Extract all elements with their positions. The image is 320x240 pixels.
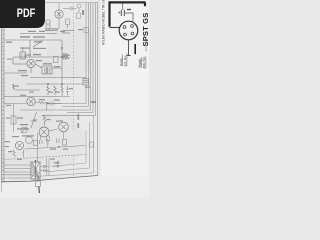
chassis ground dashed line (4, 155, 86, 160)
tube V6 (15, 141, 23, 149)
underline 1 (141, 57, 143, 68)
socket label underline 2 (126, 54, 128, 67)
paper background (0, 0, 149, 198)
underline 2 (145, 57, 147, 69)
node dot 4 (61, 83, 62, 84)
capacitor C3 (66, 86, 69, 96)
wire grid row (63, 8, 70, 10)
capacitor C6 (121, 10, 124, 16)
wire branch (29, 40, 31, 57)
speaker connector stripes (83, 81, 89, 83)
frame bottom nested line 2 (40, 116, 94, 176)
capacitor C1 box (46, 20, 50, 29)
tiny text smudges (5, 10, 96, 164)
thick divider line (134, 44, 136, 54)
tube V4 (39, 127, 49, 137)
node dot 3 (47, 83, 48, 84)
wire V1 plate (58, 3, 60, 10)
wire stub row a (62, 30, 74, 32)
wire grid bus row (20, 33, 57, 35)
wire T3 lead (22, 47, 24, 52)
resistor R5 (54, 86, 56, 95)
volume control VR1 (21, 127, 27, 133)
wire x13 drop (13, 104, 15, 133)
socket pin 2 (131, 25, 134, 28)
node dot 2 (61, 56, 62, 57)
node dot T1 top (35, 160, 37, 162)
wire diagonal (31, 112, 37, 128)
wire pin leads (40, 167, 49, 171)
svg-text:Radio: Radio (119, 58, 123, 66)
jack box J2 (34, 141, 38, 146)
page left edge lower (1, 183, 3, 192)
frame left tick marks (2, 30, 4, 181)
wire C2 lead (72, 8, 77, 10)
B+ bus line 5 (42, 3, 96, 115)
svg-text:PDF: PDF (17, 7, 36, 20)
pin circle P3 (57, 162, 59, 164)
svg-text:Ant. No.: Ant. No. (123, 55, 127, 66)
B+ bus line 1 (46, 3, 86, 104)
resistor R2 box (77, 13, 81, 19)
socket pin 3 (124, 33, 127, 36)
tube V2 electrodes (29, 62, 33, 66)
switch box S1 (63, 140, 67, 146)
crystal box Y1 (63, 54, 67, 60)
resistor R7 (35, 101, 48, 103)
staple mark (38, 187, 41, 194)
wire V5 cathode (63, 132, 65, 140)
capacitor C8 (57, 139, 60, 144)
pilot box (90, 142, 94, 147)
resistor R6 (61, 86, 63, 96)
padder trimmer box (54, 57, 59, 63)
wire heater row 3 (4, 171, 31, 173)
resistor R4 (47, 86, 49, 95)
PDF badge (0, 0, 45, 28)
crystal box marks (63, 55, 67, 59)
svg-text:ATLAS RADIO MODEL TW-1-D TR: ATLAS RADIO MODEL TW-1-D TR (101, 0, 105, 45)
tube V1 electrodes (57, 11, 61, 18)
electrolytic C5 box (11, 116, 16, 124)
tube V4 electrodes (42, 130, 47, 135)
wire V2 to T2 (35, 64, 42, 68)
frame right border (97, 3, 99, 177)
tube V3 electrodes (29, 100, 33, 104)
resistor R1 box (66, 19, 70, 25)
B+ bus line 2 (62, 3, 88, 107)
resistor R9 (13, 150, 15, 157)
capacitor C6 polarity mark (118, 11, 120, 13)
wire V2 cathode (30, 68, 32, 73)
svg-text:MOD 300: MOD 300 (144, 40, 148, 52)
volume control arrow (21, 127, 27, 133)
chassis shield dashed vertical line (73, 3, 75, 129)
wire bus left (61, 40, 63, 86)
capacitor C6 lead (122, 4, 124, 11)
wire rectifier row (4, 177, 30, 179)
tube V5 (59, 122, 69, 132)
fuse box F1 (36, 181, 41, 187)
wire V2 left lead (13, 63, 27, 65)
gutter shading (98, 0, 100, 176)
terminal box on bus (84, 28, 89, 33)
B+ bus line 3 (20, 3, 91, 110)
resistor R3 (63, 56, 70, 59)
area below page bottom (0, 176, 149, 198)
socket pin 4 (131, 32, 134, 35)
power transformer T1 (31, 162, 40, 179)
oscillator coil L1 (33, 41, 43, 48)
right margin panel lighter (99, 0, 149, 198)
node dot 6 (58, 146, 59, 147)
speaker connector J1 (83, 79, 89, 86)
frame bottom nested line 4 (52, 130, 86, 167)
wire R1 lead (67, 25, 69, 29)
node dot 1 (61, 47, 62, 48)
IF transformer T3 windings (22, 54, 25, 59)
socket label underline 1 (122, 55, 124, 67)
wire C6 to socket (124, 13, 133, 22)
wire pot lead (30, 120, 36, 122)
IF transformer windings (45, 67, 51, 74)
pin circle P1 (43, 165, 45, 167)
wire T2 out (52, 67, 62, 69)
resistor R10 (47, 139, 49, 147)
wire plate row (4, 103, 27, 105)
tube V6a (26, 137, 33, 144)
resistor R8 (43, 115, 45, 126)
wire V4-V5 (48, 129, 58, 131)
wire AVC row (30, 77, 86, 79)
wire to socket (110, 27, 120, 29)
wire heater row 1 (4, 164, 31, 166)
wire socket bottom lead (127, 40, 131, 56)
node dot 5 (47, 103, 48, 104)
tube V6 electrodes (18, 144, 22, 148)
capacitor C1 marks (46, 23, 50, 27)
wire bottom row (4, 96, 70, 98)
paper shading patches (2, 20, 94, 181)
wire stub (12, 57, 14, 64)
heavy antenna lead wire (110, 2, 146, 26)
wire row left (15, 89, 40, 91)
wire antenna row (4, 39, 62, 41)
phono jack box (46, 136, 49, 141)
chassis dashed vertical stub (73, 156, 75, 177)
capacitor C4 (48, 102, 62, 106)
frame bottom nested line 3 (46, 122, 90, 172)
wire output row (24, 146, 86, 150)
wire row 3 (4, 72, 27, 74)
B+ bus line 4 (67, 3, 93, 113)
wire pin stubs (53, 163, 57, 167)
IF transformer box T3 (20, 52, 26, 59)
tube V5 electrodes (61, 125, 66, 130)
resistor R11 (13, 84, 15, 90)
tube V1 (55, 10, 63, 18)
frame left border inner (3, 28, 5, 182)
transistor Q1 cluster (77, 4, 81, 12)
frame bottom outer line (2, 176, 98, 182)
tube socket U1 (119, 21, 138, 40)
pin circle P4 (57, 165, 59, 167)
wire stub up (46, 103, 48, 111)
capacitor C6 value (127, 9, 131, 10)
wire heater row 4 (4, 174, 31, 176)
tube V3 (27, 97, 35, 105)
filter choke L2 (22, 150, 25, 157)
wire vertical pair (47, 158, 50, 176)
wire detector row (26, 83, 83, 85)
capacitor C7 (40, 136, 43, 144)
wire V1 cathode (58, 18, 60, 28)
frame left border outer (1, 0, 3, 183)
wire row 2 (13, 56, 62, 58)
wire drop to transformer (37, 133, 39, 162)
socket pin 1 (123, 26, 126, 29)
svg-text:Ant. No.: Ant. No. (142, 56, 146, 68)
frame top line (45, 2, 98, 4)
pin circle P2 (43, 169, 45, 171)
wire heater row 2 (4, 168, 31, 170)
wire stub row b (62, 32, 70, 34)
IF transformer box T2 (42, 66, 52, 74)
tube V2 (27, 59, 35, 67)
capacitor C2 (70, 7, 72, 11)
wire fuse lead (37, 177, 39, 181)
wire top row (45, 28, 59, 30)
